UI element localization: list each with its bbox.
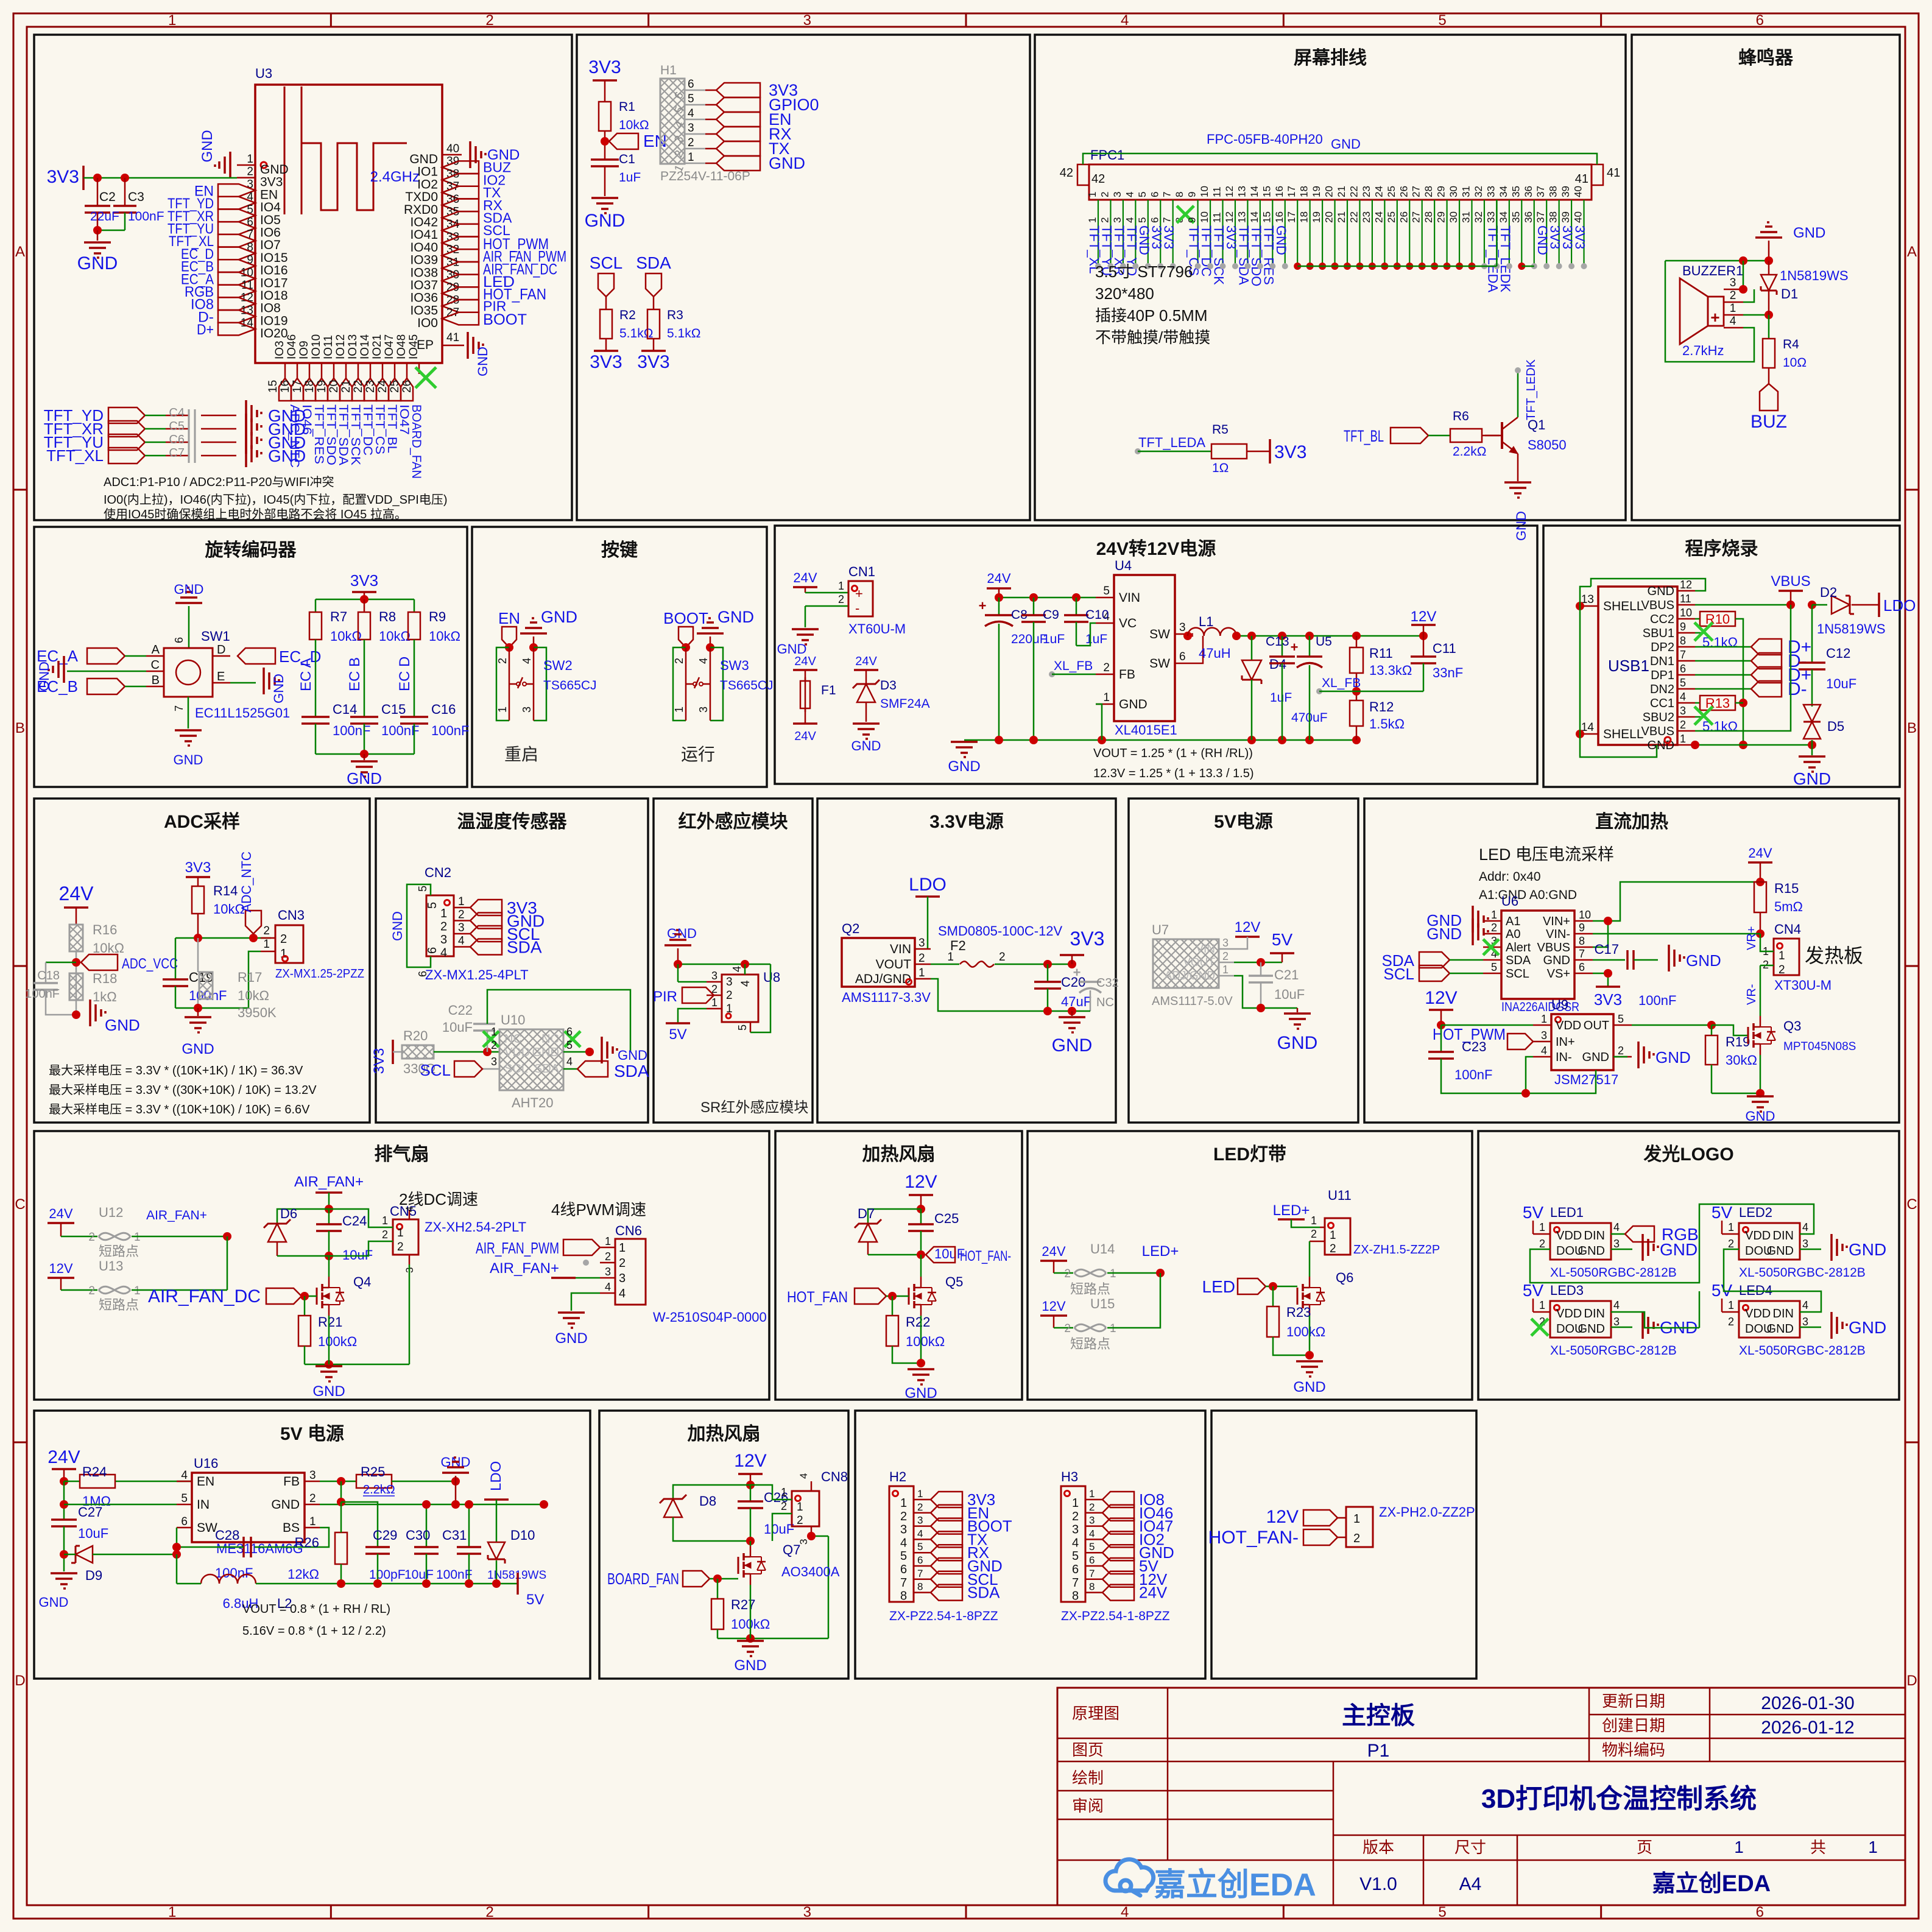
svg-text:9: 9 — [1186, 217, 1198, 223]
svg-text:R19: R19 — [1726, 1034, 1750, 1049]
svg-text:100kΩ: 100kΩ — [1286, 1324, 1325, 1339]
svg-text:2: 2 — [485, 1904, 493, 1920]
svg-text:3: 3 — [1179, 621, 1186, 634]
svg-text:TFT_SDO: TFT_SDO — [324, 404, 338, 465]
svg-text:1: 1 — [1541, 1013, 1547, 1025]
svg-text:3.3V电源: 3.3V电源 — [929, 812, 1004, 832]
svg-text:47uH: 47uH — [1199, 646, 1231, 661]
svg-text:12V: 12V — [1411, 608, 1437, 625]
svg-text:1: 1 — [134, 1285, 141, 1297]
svg-text:21: 21 — [1336, 186, 1347, 197]
svg-text:Q5: Q5 — [945, 1274, 963, 1289]
svg-text:LED+: LED+ — [1273, 1202, 1310, 1219]
svg-text:A1:GND A0:GND: A1:GND A0:GND — [1479, 888, 1577, 902]
svg-text:1uF: 1uF — [1085, 632, 1107, 646]
svg-text:NC: NC — [541, 1032, 559, 1046]
svg-text:GND: GND — [1426, 925, 1462, 943]
svg-text:XL-5050RGBC-2812B: XL-5050RGBC-2812B — [1739, 1266, 1866, 1280]
svg-text:IO10: IO10 — [310, 334, 323, 359]
svg-text:3V3: 3V3 — [185, 859, 211, 876]
svg-text:2: 2 — [397, 1241, 404, 1253]
svg-text:A: A — [1907, 244, 1917, 260]
svg-text:10: 10 — [1199, 186, 1210, 197]
svg-text:GND: GND — [1767, 1244, 1794, 1258]
svg-text:IO17: IO17 — [260, 276, 288, 290]
svg-text:R16: R16 — [93, 922, 117, 937]
svg-text:C: C — [151, 658, 160, 672]
svg-text:VIN+: VIN+ — [1543, 915, 1570, 928]
svg-text:1: 1 — [1110, 1322, 1116, 1335]
svg-text:12V: 12V — [1042, 1299, 1065, 1314]
svg-text:20: 20 — [1324, 211, 1335, 223]
svg-text:1: 1 — [263, 938, 270, 951]
svg-text:GND: GND — [1648, 585, 1674, 598]
svg-text:IO12: IO12 — [334, 334, 347, 359]
svg-text:100nF: 100nF — [1638, 993, 1676, 1008]
svg-text:37: 37 — [1535, 186, 1546, 197]
svg-text:25: 25 — [1386, 186, 1397, 197]
svg-text:1: 1 — [397, 1227, 404, 1239]
svg-text:SW2: SW2 — [543, 658, 573, 673]
svg-text:1: 1 — [382, 1215, 388, 1227]
svg-text:GND: GND — [1052, 1035, 1093, 1056]
svg-text:4: 4 — [458, 935, 465, 948]
svg-text:20: 20 — [1324, 186, 1335, 197]
svg-text:1: 1 — [797, 1501, 803, 1514]
svg-text:DIN: DIN — [1584, 1229, 1605, 1243]
svg-text:GND: GND — [174, 582, 204, 597]
svg-text:C29: C29 — [373, 1528, 397, 1543]
svg-text:XL-5050RGBC-2812B: XL-5050RGBC-2812B — [1739, 1344, 1866, 1358]
svg-text:22: 22 — [1348, 186, 1359, 197]
svg-text:R24: R24 — [82, 1464, 107, 1479]
svg-text:C18: C18 — [37, 969, 60, 982]
svg-text:TS665CJ: TS665CJ — [543, 679, 597, 693]
svg-text:GND: GND — [260, 163, 289, 177]
svg-text:ZX-ZH1.5-ZZ2P: ZX-ZH1.5-ZZ2P — [1353, 1243, 1440, 1257]
svg-text:GND: GND — [904, 1385, 937, 1401]
svg-text:EC B: EC B — [347, 657, 363, 691]
svg-text:VOUT: VOUT — [876, 957, 912, 971]
svg-text:IO18: IO18 — [260, 289, 288, 303]
svg-text:U6: U6 — [1501, 894, 1518, 909]
svg-text:18: 18 — [303, 380, 316, 393]
svg-text:8: 8 — [900, 1590, 907, 1603]
svg-text:SDA: SDA — [1506, 954, 1531, 967]
svg-text:24V: 24V — [987, 571, 1010, 586]
svg-text:21: 21 — [340, 380, 353, 393]
svg-text:4: 4 — [1124, 217, 1135, 223]
svg-text:U10: U10 — [501, 1012, 525, 1028]
svg-text:C16: C16 — [431, 702, 456, 717]
svg-text:10: 10 — [1199, 211, 1210, 223]
svg-text:35: 35 — [1510, 186, 1521, 197]
svg-text:24V: 24V — [48, 1447, 80, 1467]
svg-text:3V3: 3V3 — [588, 57, 621, 77]
svg-text:4: 4 — [688, 107, 694, 120]
svg-text:1: 1 — [1730, 302, 1736, 315]
svg-text:24V: 24V — [59, 883, 94, 904]
svg-text:24: 24 — [1373, 186, 1384, 197]
svg-text:5V: 5V — [1523, 1281, 1544, 1300]
svg-text:6: 6 — [173, 637, 185, 643]
svg-text:39: 39 — [1560, 186, 1571, 197]
svg-text:绘制: 绘制 — [1072, 1769, 1104, 1787]
svg-text:EN: EN — [498, 609, 520, 627]
svg-text:4: 4 — [1121, 12, 1129, 29]
svg-text:4: 4 — [521, 658, 533, 664]
svg-text:1: 1 — [1222, 964, 1229, 976]
svg-text:220uF: 220uF — [1011, 632, 1048, 646]
svg-text:1: 1 — [1868, 1838, 1878, 1856]
svg-text:6: 6 — [1072, 1563, 1079, 1576]
svg-text:C1: C1 — [619, 152, 635, 166]
svg-text:10uF: 10uF — [78, 1526, 108, 1541]
svg-text:2: 2 — [280, 933, 287, 946]
svg-text:31: 31 — [1461, 186, 1472, 197]
svg-text:2: 2 — [917, 1501, 923, 1513]
svg-text:TFT_RES: TFT_RES — [312, 404, 326, 464]
svg-text:U8: U8 — [763, 970, 780, 985]
svg-text:3: 3 — [803, 12, 811, 29]
svg-text:3: 3 — [619, 1272, 626, 1285]
svg-text:10uF: 10uF — [404, 1568, 434, 1582]
svg-text:FB: FB — [1119, 668, 1135, 682]
svg-text:重启: 重启 — [504, 745, 538, 764]
svg-text:2: 2 — [1779, 964, 1785, 976]
svg-text:1: 1 — [781, 1486, 787, 1498]
svg-text:IO40: IO40 — [410, 241, 438, 255]
svg-text:GND: GND — [1578, 1322, 1605, 1336]
svg-text:2: 2 — [688, 136, 694, 149]
svg-text:GND: GND — [1655, 1048, 1691, 1066]
svg-text:GND: GND — [77, 253, 118, 273]
svg-text:ZX-MX1.25-4PLT: ZX-MX1.25-4PLT — [425, 967, 529, 982]
svg-text:C31: C31 — [442, 1528, 467, 1543]
svg-text:2: 2 — [1103, 661, 1110, 674]
svg-text:SW3: SW3 — [720, 658, 749, 673]
svg-text:页: 页 — [1637, 1838, 1652, 1856]
svg-text:28: 28 — [1423, 186, 1434, 197]
svg-text:Alert: Alert — [1506, 941, 1531, 954]
svg-text:1: 1 — [1680, 733, 1686, 745]
svg-text:SHELL: SHELL — [1603, 727, 1644, 741]
svg-text:VOUT: VOUT — [1183, 956, 1215, 969]
svg-text:1: 1 — [1089, 1488, 1095, 1500]
svg-text:24: 24 — [1373, 211, 1384, 223]
svg-text:GND: GND — [182, 1041, 214, 1057]
svg-text:4: 4 — [1121, 1904, 1129, 1920]
svg-text:6: 6 — [900, 1563, 907, 1576]
svg-text:直流加热: 直流加热 — [1595, 812, 1668, 832]
svg-text:SCL: SCL — [590, 253, 622, 272]
svg-text:TFT_SCK: TFT_SCK — [348, 404, 362, 465]
svg-text:10uF: 10uF — [764, 1521, 794, 1537]
svg-text:EC D: EC D — [397, 657, 413, 691]
svg-text:屏幕排线: 屏幕排线 — [1294, 48, 1367, 68]
svg-text:ADC采样: ADC采样 — [164, 812, 240, 832]
svg-text:7: 7 — [1162, 217, 1173, 223]
svg-text:1: 1 — [917, 1488, 923, 1500]
svg-text:IO37: IO37 — [410, 278, 438, 292]
svg-text:短路点: 短路点 — [1070, 1282, 1110, 1297]
svg-text:13.3kΩ: 13.3kΩ — [1369, 663, 1412, 678]
svg-text:1uF: 1uF — [1270, 691, 1292, 705]
svg-text:VC: VC — [1119, 616, 1137, 630]
svg-text:U11: U11 — [1328, 1188, 1352, 1203]
svg-text:2: 2 — [1311, 1228, 1317, 1240]
svg-text:VIN-: VIN- — [1546, 928, 1570, 941]
svg-text:VR+: VR+ — [1745, 926, 1758, 950]
svg-text:3V3: 3V3 — [1162, 225, 1177, 249]
svg-text:6: 6 — [181, 1515, 188, 1528]
svg-text:GND: GND — [618, 1048, 647, 1063]
svg-text:IN+: IN+ — [1556, 1035, 1575, 1049]
svg-text:CC1: CC1 — [1650, 697, 1674, 710]
svg-text:2: 2 — [263, 925, 270, 937]
svg-text:5: 5 — [1072, 1549, 1079, 1563]
svg-text:10: 10 — [1579, 909, 1591, 921]
svg-text:23: 23 — [1361, 211, 1372, 223]
svg-text:1: 1 — [1087, 192, 1098, 197]
svg-text:OUT: OUT — [1584, 1019, 1609, 1032]
svg-text:LDO: LDO — [488, 1461, 504, 1491]
svg-text:1: 1 — [1728, 1299, 1734, 1311]
svg-text:1: 1 — [168, 12, 176, 29]
svg-text:10kΩ: 10kΩ — [619, 118, 649, 132]
svg-text:3V3: 3V3 — [590, 352, 622, 372]
svg-text:R17: R17 — [238, 970, 262, 985]
svg-text:TFT_LEDK: TFT_LEDK — [1525, 359, 1538, 420]
svg-text:1: 1 — [1087, 217, 1098, 223]
svg-text:审阅: 审阅 — [1072, 1797, 1104, 1815]
svg-text:H3: H3 — [1061, 1469, 1078, 1484]
svg-text:CN2: CN2 — [425, 865, 451, 880]
svg-text:+: + — [855, 586, 863, 601]
svg-text:U3: U3 — [255, 66, 272, 81]
svg-text:4线PWM调速: 4线PWM调速 — [551, 1200, 646, 1219]
svg-text:4: 4 — [1730, 315, 1736, 328]
svg-text:31: 31 — [1461, 211, 1472, 223]
svg-text:12: 12 — [1680, 579, 1692, 591]
svg-text:R12: R12 — [1369, 699, 1394, 714]
svg-text:运行: 运行 — [681, 745, 715, 764]
svg-text:1: 1 — [1539, 1299, 1545, 1311]
svg-text:12V: 12V — [904, 1172, 937, 1192]
svg-text:2: 2 — [1222, 950, 1229, 962]
svg-text:40: 40 — [1573, 211, 1584, 223]
svg-text:GND: GND — [1582, 1051, 1609, 1064]
svg-text:IO8: IO8 — [260, 301, 281, 316]
svg-text:尺寸: 尺寸 — [1454, 1838, 1486, 1856]
svg-text:BOOT: BOOT — [483, 311, 527, 328]
svg-text:SCL: SCL — [1383, 965, 1414, 983]
svg-text:CN6: CN6 — [615, 1223, 642, 1238]
svg-text:LED1: LED1 — [1550, 1205, 1584, 1220]
svg-text:SW: SW — [197, 1521, 217, 1535]
svg-text:32: 32 — [1473, 211, 1484, 223]
svg-text:E: E — [217, 670, 225, 683]
svg-text:6: 6 — [1756, 12, 1764, 29]
svg-text:R15: R15 — [1774, 881, 1799, 896]
svg-text:排气扇: 排气扇 — [375, 1144, 429, 1165]
svg-text:4: 4 — [1072, 1536, 1079, 1549]
svg-text:4: 4 — [697, 658, 710, 664]
svg-text:创建日期: 创建日期 — [1602, 1716, 1665, 1735]
svg-text:BOARD_FAN: BOARD_FAN — [607, 1570, 679, 1588]
svg-text:R18: R18 — [93, 971, 117, 986]
svg-text:5: 5 — [1089, 1541, 1095, 1553]
svg-text:1: 1 — [711, 996, 717, 1009]
svg-text:10kΩ: 10kΩ — [93, 940, 124, 956]
svg-text:VDD: VDD — [1745, 1307, 1771, 1320]
svg-text:A: A — [152, 643, 160, 657]
svg-text:DN1: DN1 — [1650, 655, 1674, 668]
svg-text:5: 5 — [1438, 1904, 1446, 1920]
svg-text:IO3: IO3 — [273, 340, 286, 359]
svg-text:U12: U12 — [99, 1205, 123, 1220]
svg-text:10Ω: 10Ω — [1783, 356, 1807, 370]
svg-text:25: 25 — [389, 380, 401, 393]
svg-text:C21: C21 — [1274, 967, 1299, 982]
svg-text:1: 1 — [1491, 909, 1497, 921]
svg-text:5V: 5V — [526, 1592, 544, 1608]
svg-text:5mΩ: 5mΩ — [1774, 899, 1803, 914]
svg-text:3: 3 — [440, 933, 447, 947]
svg-text:3V3: 3V3 — [1070, 928, 1105, 950]
svg-text:7: 7 — [900, 1576, 907, 1590]
svg-text:9: 9 — [1680, 621, 1686, 633]
svg-text:AIR_FAN_DC: AIR_FAN_DC — [148, 1286, 261, 1306]
svg-text:LED3: LED3 — [1550, 1283, 1584, 1298]
svg-text:GND: GND — [475, 347, 490, 376]
svg-text:TFT_BL: TFT_BL — [385, 404, 399, 453]
svg-text:C5: C5 — [169, 420, 185, 433]
svg-text:最大采样电压 = 3.3V * ((10K+1K) / 1K: 最大采样电压 = 3.3V * ((10K+1K) / 1K) = 36.3V — [49, 1063, 303, 1077]
svg-text:LED 电压电流采样: LED 电压电流采样 — [1479, 845, 1614, 864]
svg-text:EC A: EC A — [298, 658, 314, 691]
svg-text:SCL: SCL — [504, 1062, 528, 1076]
svg-text:3: 3 — [1541, 1029, 1547, 1042]
svg-text:D: D — [217, 643, 225, 657]
svg-text:2: 2 — [1089, 1501, 1095, 1513]
svg-text:SW1: SW1 — [201, 629, 230, 644]
svg-text:IN-: IN- — [1556, 1051, 1572, 1064]
svg-text:W-2510S04P-0000: W-2510S04P-0000 — [653, 1310, 767, 1325]
svg-text:C32: C32 — [1096, 976, 1119, 990]
svg-text:VIN: VIN — [890, 942, 911, 956]
svg-text:6: 6 — [917, 1554, 923, 1566]
svg-text:15: 15 — [267, 380, 280, 393]
svg-text:U5: U5 — [1316, 635, 1332, 649]
svg-text:SDA: SDA — [614, 1062, 649, 1081]
svg-text:NC: NC — [1096, 996, 1114, 1009]
svg-text:4: 4 — [1613, 1221, 1620, 1233]
svg-text:GND: GND — [1543, 954, 1570, 967]
svg-text:R27: R27 — [731, 1597, 755, 1612]
svg-text:12kΩ: 12kΩ — [287, 1567, 319, 1582]
svg-text:VIN: VIN — [1196, 943, 1215, 956]
svg-text:GND: GND — [1767, 1322, 1794, 1336]
svg-text:VOUT = 0.8 * (1 + RH / RL): VOUT = 0.8 * (1 + RH / RL) — [242, 1602, 390, 1616]
svg-text:R5: R5 — [1212, 423, 1229, 437]
svg-text:5: 5 — [1438, 12, 1446, 29]
svg-text:VR-: VR- — [1745, 984, 1758, 1005]
svg-text:17: 17 — [1286, 211, 1297, 223]
svg-text:1: 1 — [1110, 1267, 1116, 1280]
svg-text:U9: U9 — [1551, 997, 1568, 1012]
svg-text:版本: 版本 — [1363, 1838, 1394, 1856]
svg-text:CN1: CN1 — [848, 564, 875, 579]
svg-text:4: 4 — [917, 1528, 923, 1539]
svg-text:C2: C2 — [99, 190, 116, 204]
svg-text:AO3400A: AO3400A — [781, 1564, 840, 1579]
svg-text:TFT_LEDA: TFT_LEDA — [1138, 435, 1205, 450]
svg-text:11: 11 — [1680, 593, 1691, 605]
svg-text:3D打印机仓温控制系统: 3D打印机仓温控制系统 — [1481, 1784, 1757, 1814]
svg-text:16: 16 — [1274, 211, 1285, 223]
svg-text:C11: C11 — [1433, 641, 1456, 656]
svg-text:6: 6 — [1149, 192, 1160, 197]
svg-text:AIR_FAN+: AIR_FAN+ — [146, 1208, 207, 1222]
svg-text:D6: D6 — [280, 1206, 297, 1221]
svg-text:D7: D7 — [858, 1206, 875, 1221]
svg-text:6: 6 — [1089, 1554, 1095, 1566]
svg-text:ADJ/GND: ADJ/GND — [855, 972, 911, 986]
svg-text:14: 14 — [1249, 186, 1260, 197]
svg-text:IO5: IO5 — [260, 213, 281, 227]
svg-text:图页: 图页 — [1072, 1741, 1104, 1759]
svg-text:SMF24A: SMF24A — [880, 697, 930, 711]
svg-text:FPC1: FPC1 — [1090, 147, 1124, 163]
svg-text:IO9: IO9 — [298, 340, 311, 359]
svg-text:IN: IN — [197, 1498, 210, 1512]
svg-text:ZX-PZ2.54-1-8PZZ: ZX-PZ2.54-1-8PZZ — [889, 1609, 998, 1623]
svg-text:1N5819WS: 1N5819WS — [1817, 621, 1886, 636]
svg-text:C15: C15 — [381, 702, 406, 717]
svg-text:IO35: IO35 — [410, 303, 438, 317]
svg-text:VBUS: VBUS — [1641, 599, 1674, 612]
svg-text:XL4015E1: XL4015E1 — [1115, 722, 1177, 738]
svg-text:C13: C13 — [1266, 635, 1289, 649]
svg-text:C23: C23 — [1462, 1039, 1486, 1054]
svg-text:2: 2 — [309, 1492, 316, 1505]
svg-text:10kΩ: 10kΩ — [379, 629, 411, 644]
svg-text:CN3: CN3 — [278, 908, 305, 923]
svg-text:H2: H2 — [889, 1469, 906, 1484]
svg-text:1: 1 — [673, 707, 685, 713]
svg-text:ADC_VCC: ADC_VCC — [122, 956, 178, 972]
svg-text:4: 4 — [1613, 1299, 1620, 1311]
svg-text:3: 3 — [1802, 1316, 1808, 1328]
svg-text:NC: NC — [504, 1032, 522, 1046]
svg-text:GND: GND — [948, 758, 980, 775]
svg-text:按键: 按键 — [601, 540, 638, 560]
svg-text:IO38: IO38 — [410, 266, 438, 280]
svg-text:8: 8 — [917, 1581, 923, 1593]
svg-text:Q4: Q4 — [353, 1274, 371, 1289]
svg-text:R25: R25 — [361, 1464, 385, 1479]
svg-text:GND: GND — [1793, 769, 1831, 788]
svg-text:11: 11 — [1211, 212, 1223, 223]
svg-text:LED2: LED2 — [1739, 1205, 1772, 1220]
svg-text:2.2kΩ: 2.2kΩ — [1453, 445, 1486, 459]
svg-text:3: 3 — [491, 1056, 497, 1068]
svg-text:100nF: 100nF — [25, 987, 60, 1001]
svg-text:14: 14 — [1249, 211, 1260, 223]
svg-text:5: 5 — [1137, 217, 1148, 223]
svg-text:GND: GND — [268, 446, 306, 465]
